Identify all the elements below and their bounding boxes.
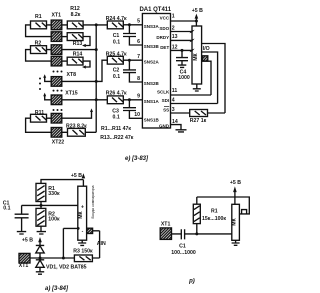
svg-text:R2: R2 (35, 40, 42, 46)
svg-text:330к: 330к (48, 191, 60, 197)
svg-text:R1: R1 (35, 14, 42, 20)
svg-text:11: 11 (172, 88, 178, 94)
svg-text:0.1: 0.1 (113, 114, 120, 120)
svg-text:МК: МК (78, 210, 84, 218)
svg-text:R11: R11 (35, 110, 44, 116)
svg-text:АIN: АIN (97, 241, 106, 247)
svg-text:VD1, VD2 BAT85: VD1, VD2 BAT85 (46, 265, 87, 271)
svg-text:14: 14 (172, 119, 178, 125)
svg-text:13: 13 (172, 34, 178, 40)
svg-text:0.1: 0.1 (113, 74, 120, 80)
svg-text:р): р) (188, 279, 195, 285)
svg-text:R1...R11 47к: R1...R11 47к (101, 126, 131, 132)
svg-text:4: 4 (172, 97, 175, 103)
svg-text:3: 3 (172, 107, 175, 113)
svg-text:10: 10 (134, 112, 140, 118)
svg-text:SNS1B: SNS1B (144, 118, 160, 123)
svg-text:C2: C2 (113, 68, 120, 74)
svg-text:7: 7 (137, 54, 140, 60)
svg-text:+: + (81, 205, 84, 211)
svg-text:SNS2B: SNS2B (144, 81, 160, 86)
svg-text:SDI: SDI (162, 98, 170, 103)
svg-text:12: 12 (172, 45, 178, 51)
svg-text:R23 8.2к: R23 8.2к (66, 123, 87, 129)
svg-text:R13...R22 47к: R13...R22 47к (100, 135, 134, 141)
svg-text:6: 6 (137, 39, 140, 45)
svg-text:R3 150к: R3 150к (73, 249, 93, 255)
svg-text:SNS1A: SNS1A (144, 99, 160, 104)
svg-text:XT1: XT1 (51, 12, 61, 18)
svg-text:8.2к: 8.2к (71, 12, 81, 18)
svg-text:XT1: XT1 (19, 263, 29, 269)
svg-text:R24 4.7к: R24 4.7к (106, 16, 127, 22)
svg-text:SNS3A: SNS3A (144, 24, 160, 29)
svg-text:R26 4.7к: R26 4.7к (106, 91, 127, 97)
svg-text:Входы компаратора: Входы компаратора (90, 185, 95, 219)
svg-text:1: 1 (172, 14, 175, 20)
svg-text:0.1: 0.1 (3, 205, 10, 211)
svg-text:VCC: VCC (160, 15, 170, 20)
svg-text:МК: МК (232, 217, 238, 225)
svg-text:SNS2A: SNS2A (144, 59, 160, 64)
svg-text:DRDY: DRDY (156, 35, 169, 40)
svg-text:I/O: I/O (203, 46, 210, 52)
svg-text:XT1: XT1 (161, 222, 171, 228)
svg-text:DET: DET (160, 45, 169, 50)
svg-text:МК: МК (193, 52, 199, 60)
svg-text:SCLK: SCLK (157, 89, 170, 94)
svg-text:+5 В: +5 В (230, 180, 241, 186)
svg-text:DA1 QT411: DA1 QT411 (139, 7, 171, 13)
svg-text:GND: GND (159, 124, 170, 129)
svg-text:SNS3B: SNS3B (144, 44, 160, 49)
svg-text:1000: 1000 (178, 75, 190, 81)
svg-text:5: 5 (137, 19, 140, 25)
svg-text:+5 В: +5 В (22, 237, 33, 243)
svg-text:0.1: 0.1 (113, 39, 120, 45)
svg-text:+5 В: +5 В (71, 173, 82, 179)
svg-text:R27 1к: R27 1к (190, 118, 207, 124)
svg-text:SDO: SDO (159, 26, 169, 31)
svg-text:SS: SS (163, 107, 169, 112)
svg-text:2: 2 (172, 25, 175, 31)
svg-text:100к: 100к (48, 216, 60, 222)
svg-text:15к...100к: 15к...100к (202, 216, 226, 222)
svg-text:R14: R14 (73, 52, 83, 58)
svg-text:а) [3-84]: а) [3-84] (45, 286, 69, 292)
svg-text:R25 4.7к: R25 4.7к (106, 51, 127, 57)
svg-text:XT8: XT8 (67, 72, 77, 78)
svg-text:9: 9 (137, 94, 140, 100)
svg-text:8: 8 (137, 76, 140, 82)
svg-text:R13: R13 (73, 41, 83, 47)
svg-text:C1: C1 (179, 244, 186, 250)
svg-text:R1: R1 (211, 209, 218, 215)
svg-text:е) [3-83]: е) [3-83] (125, 156, 149, 162)
svg-text:C1: C1 (113, 33, 120, 39)
svg-text:XT15: XT15 (65, 91, 78, 97)
svg-text:100...1000: 100...1000 (171, 250, 196, 256)
svg-text:XT22: XT22 (52, 140, 65, 146)
svg-text:+5 В: +5 В (192, 8, 203, 14)
